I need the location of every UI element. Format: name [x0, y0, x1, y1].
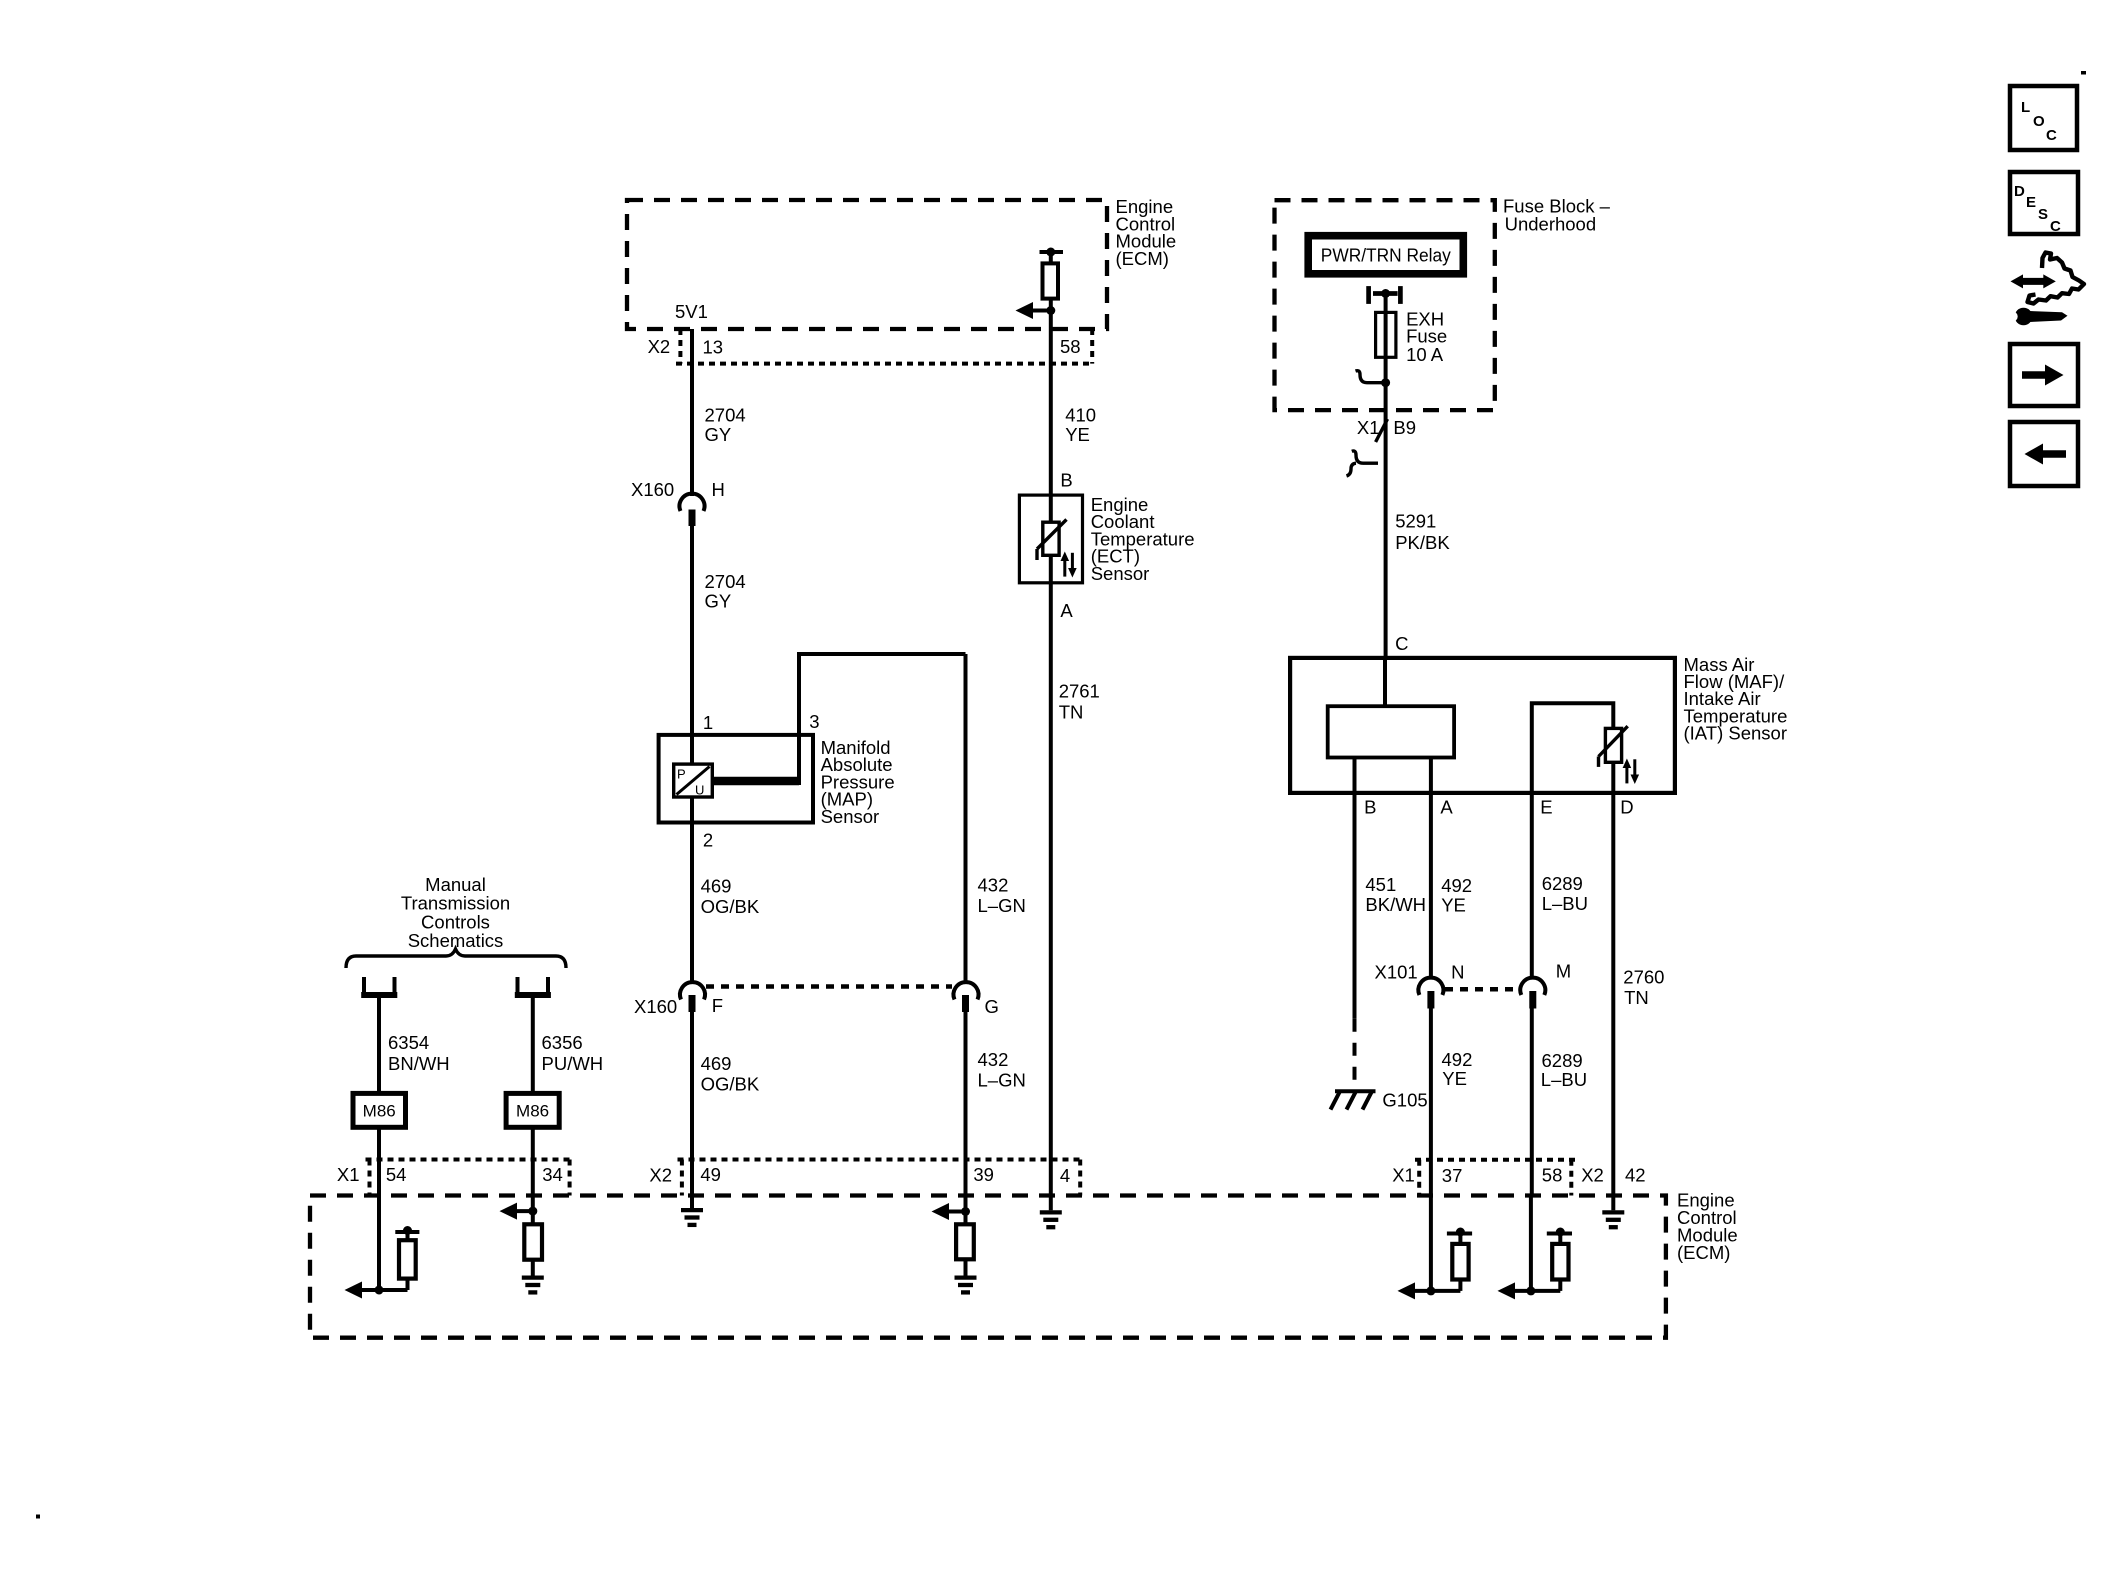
svg-text:L–GN: L–GN	[978, 1070, 1026, 1091]
connector X1 pin box (pins 54 / 34)	[366, 1160, 574, 1196]
pin labels X1 37 58 X2 42	[1392, 1165, 1645, 1187]
wire pin 49 into ECM	[690, 1196, 694, 1209]
stray mark top right	[2081, 71, 2086, 75]
off-page connector (6356)	[515, 977, 551, 995]
svg-text:432: 432	[978, 1049, 1009, 1070]
wire label 469 OG/BK	[701, 875, 760, 917]
wire 469 OG/BK upper	[690, 823, 694, 984]
wire label 6289 L-BU	[1542, 873, 1588, 914]
Fuse Block label	[1503, 196, 1611, 235]
ECM bottom label	[1677, 1189, 1738, 1263]
ground pin 42	[1602, 1212, 1624, 1227]
svg-text:L–GN: L–GN	[978, 895, 1026, 916]
connector X160 H label	[631, 479, 725, 500]
wire D inside box	[1611, 762, 1615, 793]
wire 492 YE lower	[1429, 1009, 1433, 1196]
ECM top dashed box	[627, 200, 1107, 329]
wire pin 3 riser	[797, 654, 801, 785]
signal arrow pin 58	[1498, 1282, 1531, 1299]
wire resistor to ground pin 39	[964, 1259, 968, 1275]
wire junction to resistor pin 39	[964, 1212, 968, 1225]
svg-text:34: 34	[542, 1164, 563, 1185]
svg-text:49: 49	[700, 1164, 721, 1185]
wire 432 L-GN lower	[964, 1012, 968, 1212]
splice M86 (right)	[506, 1093, 559, 1127]
wire pin 37 into ECM	[1429, 1196, 1433, 1291]
wire relay to fuse	[1384, 294, 1388, 658]
svg-text:2704: 2704	[705, 405, 746, 426]
svg-text:B9: B9	[1393, 417, 1416, 438]
connector X101 N M labels	[1375, 961, 1572, 983]
ECT thermistor element	[1037, 520, 1067, 561]
wire label 2761 TN	[1059, 680, 1100, 722]
svg-text:YE: YE	[1065, 424, 1090, 445]
stray mark bottom left	[36, 1515, 40, 1519]
signal arrow pin 39	[932, 1203, 966, 1220]
wire label 5291 PK/BK	[1395, 511, 1450, 553]
wire 2761 TN	[1049, 555, 1053, 1195]
icon wrench arrows	[2007, 253, 2084, 326]
PWR/TRN Relay box	[1308, 236, 1463, 274]
Manual Transmission Controls Schematics label	[401, 874, 510, 951]
wire label 6289 L-BU lower	[1541, 1050, 1587, 1090]
ECM bottom dashed box	[310, 1196, 1666, 1338]
junction dot pin 54	[375, 1286, 384, 1295]
pin labels X1 54 34	[337, 1164, 563, 1185]
wire label 2760 TN	[1623, 966, 1664, 1008]
svg-text:N: N	[1451, 961, 1464, 982]
svg-text:PU/WH: PU/WH	[542, 1053, 604, 1074]
svg-text:C: C	[2050, 218, 2061, 235]
wire 6289 L-BU lower	[1530, 1009, 1534, 1196]
ground pin 39	[955, 1278, 977, 1293]
resistor pin 34	[524, 1224, 542, 1259]
svg-text:X2: X2	[649, 1165, 672, 1186]
icon back arrow box	[2010, 422, 2078, 486]
icon LOC box	[2010, 86, 2077, 150]
connector X101 M symbol	[1520, 978, 1545, 1009]
svg-text:451: 451	[1365, 874, 1396, 895]
svg-text:L–BU: L–BU	[1542, 893, 1588, 914]
connector X160 F G labels	[634, 995, 999, 1017]
wire label 492 YE lower	[1442, 1049, 1473, 1089]
IAT loop wire E	[1532, 703, 1614, 793]
svg-text:C: C	[2046, 127, 2057, 144]
pull-up resistor branch pin 54	[379, 1226, 419, 1290]
svg-text:6289: 6289	[1542, 1050, 1583, 1071]
wire 2704 GY upper segment	[690, 329, 694, 496]
ground pin 4	[1040, 1212, 1062, 1227]
wire label 432 L-GN	[978, 875, 1026, 917]
MAP sensor box	[659, 735, 813, 823]
ground pin 49	[681, 1210, 703, 1225]
connector clip lower	[1347, 451, 1379, 476]
wire pin 34 into ECM	[531, 1196, 535, 1225]
svg-text:(ECM): (ECM)	[1116, 248, 1169, 269]
junction dot at clip	[1381, 378, 1390, 387]
svg-text:42: 42	[1625, 1165, 1646, 1186]
svg-text:2704: 2704	[705, 571, 746, 592]
svg-text:F: F	[712, 995, 723, 1016]
svg-text:39: 39	[973, 1164, 994, 1185]
wire label 451 BK/WH	[1365, 874, 1426, 915]
svg-text:Underhood: Underhood	[1505, 214, 1597, 235]
wire label 492 YE	[1441, 875, 1472, 916]
splice M86 (left)	[353, 1093, 406, 1127]
wire label 6356 PU/WH	[542, 1032, 604, 1074]
svg-text:X160: X160	[634, 996, 677, 1017]
EXH fuse 10A	[1376, 312, 1396, 357]
wire 451 BK/WH solid	[1353, 793, 1357, 1019]
wire 469 OG/BK lower	[690, 1012, 694, 1196]
wire 432 L-GN vertical	[964, 654, 968, 983]
svg-text:TN: TN	[1624, 987, 1649, 1008]
svg-text:D: D	[1620, 796, 1633, 817]
svg-text:37: 37	[1442, 1165, 1463, 1186]
svg-text:B: B	[1364, 796, 1376, 817]
connector X1 B9 labels	[1357, 417, 1416, 438]
junction dot on wire 58	[1046, 306, 1055, 315]
brace	[346, 949, 566, 968]
svg-text:X1: X1	[1392, 1165, 1415, 1186]
connector X1 pin box (pins 37 / 58, right)	[1415, 1160, 1576, 1196]
svg-text:OG/BK: OG/BK	[701, 1074, 760, 1095]
svg-text:YE: YE	[1442, 1068, 1467, 1089]
MAF/IAT sensor box	[1290, 658, 1675, 793]
wire 2704 GY lower segment	[690, 526, 694, 735]
svg-text:L–BU: L–BU	[1541, 1069, 1587, 1090]
svg-text:5V1: 5V1	[675, 301, 708, 322]
svg-text:Sensor: Sensor	[821, 806, 880, 827]
svg-text:BN/WH: BN/WH	[388, 1053, 450, 1074]
svg-text:S: S	[2038, 206, 2048, 223]
ECT sensor box	[1019, 495, 1082, 583]
IAT thermistor	[1599, 726, 1628, 767]
Fuse Block Underhood dashed box	[1275, 200, 1495, 410]
wire 6356 PU/WH	[531, 997, 535, 1093]
svg-text:B: B	[1060, 470, 1072, 491]
svg-text:3: 3	[809, 711, 819, 732]
svg-text:4: 4	[1060, 1165, 1070, 1186]
wire 2760 TN	[1611, 793, 1615, 1196]
junction dot pin 58	[1526, 1286, 1535, 1295]
svg-text:492: 492	[1442, 1049, 1473, 1070]
MAF element box	[1328, 706, 1454, 757]
wire resistor to ground pin 34	[531, 1260, 535, 1276]
wire label 2704 GY	[705, 405, 746, 446]
connector B9 slash	[1376, 419, 1388, 442]
connector X160 H symbol	[680, 494, 705, 526]
wire label 432 L-GN lower	[978, 1049, 1026, 1091]
connector X2 pin box (pins 13 / 58, top)	[676, 329, 1092, 364]
svg-text:X101: X101	[1375, 961, 1418, 982]
X160 connector dotted tie line	[706, 984, 952, 989]
svg-text:G: G	[985, 996, 999, 1017]
svg-text:E: E	[2026, 194, 2036, 211]
resistor internal ECM (on wire 58)	[1043, 263, 1059, 298]
svg-text:OG/BK: OG/BK	[701, 896, 760, 917]
svg-text:BK/WH: BK/WH	[1365, 894, 1426, 915]
MAP P/U transducer square	[674, 764, 713, 797]
svg-text:410: 410	[1065, 405, 1096, 426]
svg-text:M86: M86	[516, 1102, 549, 1121]
svg-text:D: D	[2014, 183, 2025, 200]
wire from resistor to pin 58	[1049, 299, 1053, 523]
wire pin 54 into ECM	[377, 1196, 381, 1291]
svg-text:X1: X1	[1357, 417, 1380, 438]
connector X160 G symbol	[953, 982, 978, 1012]
svg-text:432: 432	[978, 875, 1009, 896]
EXH fuse label	[1406, 308, 1447, 365]
svg-text:YE: YE	[1441, 895, 1466, 916]
svg-text:P: P	[677, 767, 686, 782]
relay output terminal	[1369, 286, 1401, 304]
svg-text:L: L	[2021, 99, 2030, 116]
signal arrow pin 37	[1398, 1282, 1431, 1299]
wire M86 to pin 54	[377, 1127, 381, 1195]
svg-text:X2: X2	[648, 336, 671, 357]
svg-text:E: E	[1540, 796, 1552, 817]
svg-text:M86: M86	[363, 1102, 396, 1121]
junction dot pin 37	[1426, 1286, 1435, 1295]
MAF pin labels B A E D	[1364, 796, 1634, 817]
signal arrow pin 54	[345, 1282, 380, 1299]
IAT bidirectional arrows	[1623, 759, 1640, 785]
wire pin 4 into ECM	[1049, 1196, 1053, 1211]
signal arrow pin 34	[500, 1203, 533, 1220]
wire pin 58 into ECM	[1529, 1196, 1533, 1291]
wire label 469 OG/BK lower	[701, 1053, 760, 1095]
resistor pin 39	[956, 1224, 974, 1259]
MAP output bus to pin 3	[712, 777, 799, 786]
wire M86 to pin 34	[531, 1127, 535, 1195]
wire label 6354 BN/WH	[388, 1032, 450, 1074]
pin labels X2 49 39 4	[649, 1164, 1070, 1186]
svg-text:6289: 6289	[1542, 873, 1583, 894]
svg-text:C: C	[1395, 633, 1408, 654]
wire pin 42 stub	[1611, 1196, 1615, 1211]
svg-text:58: 58	[1060, 336, 1081, 357]
ECT sensor label	[1091, 494, 1195, 584]
svg-text:469: 469	[701, 875, 732, 896]
wire 6289 L-BU upper	[1530, 793, 1534, 978]
svg-text:A: A	[1440, 796, 1453, 817]
MAP internal wires pin1 pin2	[690, 735, 694, 823]
icon next arrow box	[2010, 344, 2078, 406]
svg-text:TN: TN	[1059, 702, 1084, 723]
svg-text:6356: 6356	[542, 1032, 583, 1053]
svg-text:PK/BK: PK/BK	[1395, 532, 1450, 553]
svg-text:G105: G105	[1382, 1089, 1427, 1110]
connector X2 pin box (pins 49 / 39 / 4)	[678, 1160, 1085, 1196]
ECT bidirectional arrows	[1061, 552, 1077, 578]
svg-text:GY: GY	[705, 591, 732, 612]
svg-text:13: 13	[703, 336, 724, 357]
chassis ground G105	[1331, 1091, 1376, 1109]
pull-up resistor branch pin 37	[1431, 1228, 1472, 1291]
svg-text:54: 54	[386, 1164, 407, 1185]
svg-text:O: O	[2033, 113, 2045, 130]
svg-text:2761: 2761	[1059, 680, 1100, 701]
svg-text:A: A	[1060, 600, 1073, 621]
ground pin 34	[522, 1278, 544, 1293]
wire 6354 BN/WH	[377, 997, 381, 1093]
off-page connector (6354)	[361, 977, 397, 995]
svg-text:58: 58	[1542, 1165, 1563, 1186]
junction dot pin 39	[961, 1207, 970, 1216]
wire C into MAF element	[1383, 658, 1387, 706]
svg-text:GY: GY	[705, 424, 732, 445]
wire label 2704 GY lower	[705, 571, 746, 612]
signal arrow (to other page) on wire 58	[1016, 302, 1051, 319]
svg-text:H: H	[712, 479, 725, 500]
MAF element pin wires	[1355, 758, 1431, 793]
svg-text:(ECM): (ECM)	[1677, 1242, 1730, 1263]
pull-up resistor branch pin 58	[1531, 1228, 1572, 1291]
internal pull-up supply bar (wire 58 head)	[1040, 248, 1064, 264]
connector X160 F symbol	[680, 982, 705, 1012]
svg-text:2760: 2760	[1623, 966, 1664, 987]
wire 432 top run	[797, 652, 966, 656]
svg-text:PWR/TRN Relay: PWR/TRN Relay	[1321, 245, 1452, 266]
wire 451 dashed segment	[1353, 1019, 1357, 1089]
ECM top label	[1116, 196, 1177, 269]
svg-text:492: 492	[1441, 875, 1472, 896]
svg-text:U: U	[695, 783, 704, 798]
icon DESC box	[2010, 172, 2078, 235]
svg-text:10 A: 10 A	[1406, 344, 1444, 365]
svg-text:1: 1	[703, 712, 713, 733]
wire label 410 YE	[1065, 405, 1096, 446]
svg-text:X1: X1	[337, 1164, 360, 1185]
wire 492 YE upper	[1429, 793, 1433, 978]
svg-text:Sensor: Sensor	[1091, 563, 1150, 584]
junction dot pin 34	[528, 1207, 537, 1216]
connector clip upper	[1356, 371, 1386, 383]
svg-text:X160: X160	[631, 479, 674, 500]
svg-text:(IAT) Sensor: (IAT) Sensor	[1684, 723, 1787, 744]
svg-text:X2: X2	[1581, 1165, 1604, 1186]
X101 connector dotted tie line	[1445, 987, 1519, 992]
svg-text:M: M	[1556, 961, 1571, 982]
svg-text:5291: 5291	[1395, 511, 1436, 532]
svg-text:2: 2	[703, 830, 713, 851]
connector X101 N symbol	[1418, 978, 1443, 1009]
svg-text:469: 469	[701, 1053, 732, 1074]
svg-text:6354: 6354	[388, 1032, 429, 1053]
MAP sensor label	[821, 737, 895, 827]
MAF sensor label	[1684, 654, 1788, 744]
